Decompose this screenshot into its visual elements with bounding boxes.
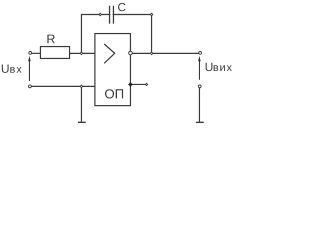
- node: output feedback junction: [150, 52, 153, 55]
- wire: feedback right vertical: [151, 15, 153, 54]
- terminal: input bottom: [29, 85, 32, 88]
- wire: input terminal to resistor: [30, 52, 40, 54]
- label Uvih (output voltage): [206, 63, 232, 71]
- label Uvx (input voltage): [2, 65, 22, 73]
- arrow Uvih shaft: [198, 61, 200, 80]
- wire: resistor to op-amp inverting input: [70, 52, 95, 54]
- op-amp amplification chevron: [104, 44, 115, 63]
- label OP (op-amp): [105, 89, 123, 98]
- capacitor C left plate: [109, 6, 111, 24]
- op-amp U1 body: [95, 34, 131, 106]
- ground bar right: [196, 121, 204, 123]
- wire: left ground drop: [80, 86, 82, 122]
- label R: [47, 35, 54, 44]
- op-amp common output dot: [128, 82, 133, 87]
- wire: op-amp output to output terminal: [132, 52, 200, 54]
- resistor R: [40, 47, 69, 59]
- node: inverting input junction: [80, 52, 83, 55]
- wire: right ground drop: [198, 88, 200, 122]
- op-amp output inversion circle: [129, 51, 133, 55]
- wire: bottom rail to op-amp non-inverting input: [30, 85, 95, 87]
- capacitor gap mask: [110, 10, 112, 19]
- node: stub end marker: [145, 83, 147, 85]
- node: feedback top-right corner: [150, 13, 153, 16]
- capacitor C right plate: [112, 6, 114, 24]
- node: rail ground junction: [80, 85, 83, 88]
- wire: feedback top horizontal: [81, 14, 152, 16]
- label C: [118, 3, 126, 11]
- arrow Uvx head: [28, 56, 31, 62]
- op-amp common output stub: [130, 83, 146, 85]
- terminal: output bottom: [198, 85, 201, 88]
- terminal: output top: [199, 52, 202, 55]
- arrow Uvx shaft: [28, 61, 30, 82]
- node: feedback wire left marker: [99, 13, 102, 16]
- wire: feedback left vertical: [80, 15, 82, 54]
- terminal: input top: [29, 52, 32, 55]
- ground bar left: [78, 121, 86, 123]
- arrow Uvih head: [198, 56, 201, 62]
